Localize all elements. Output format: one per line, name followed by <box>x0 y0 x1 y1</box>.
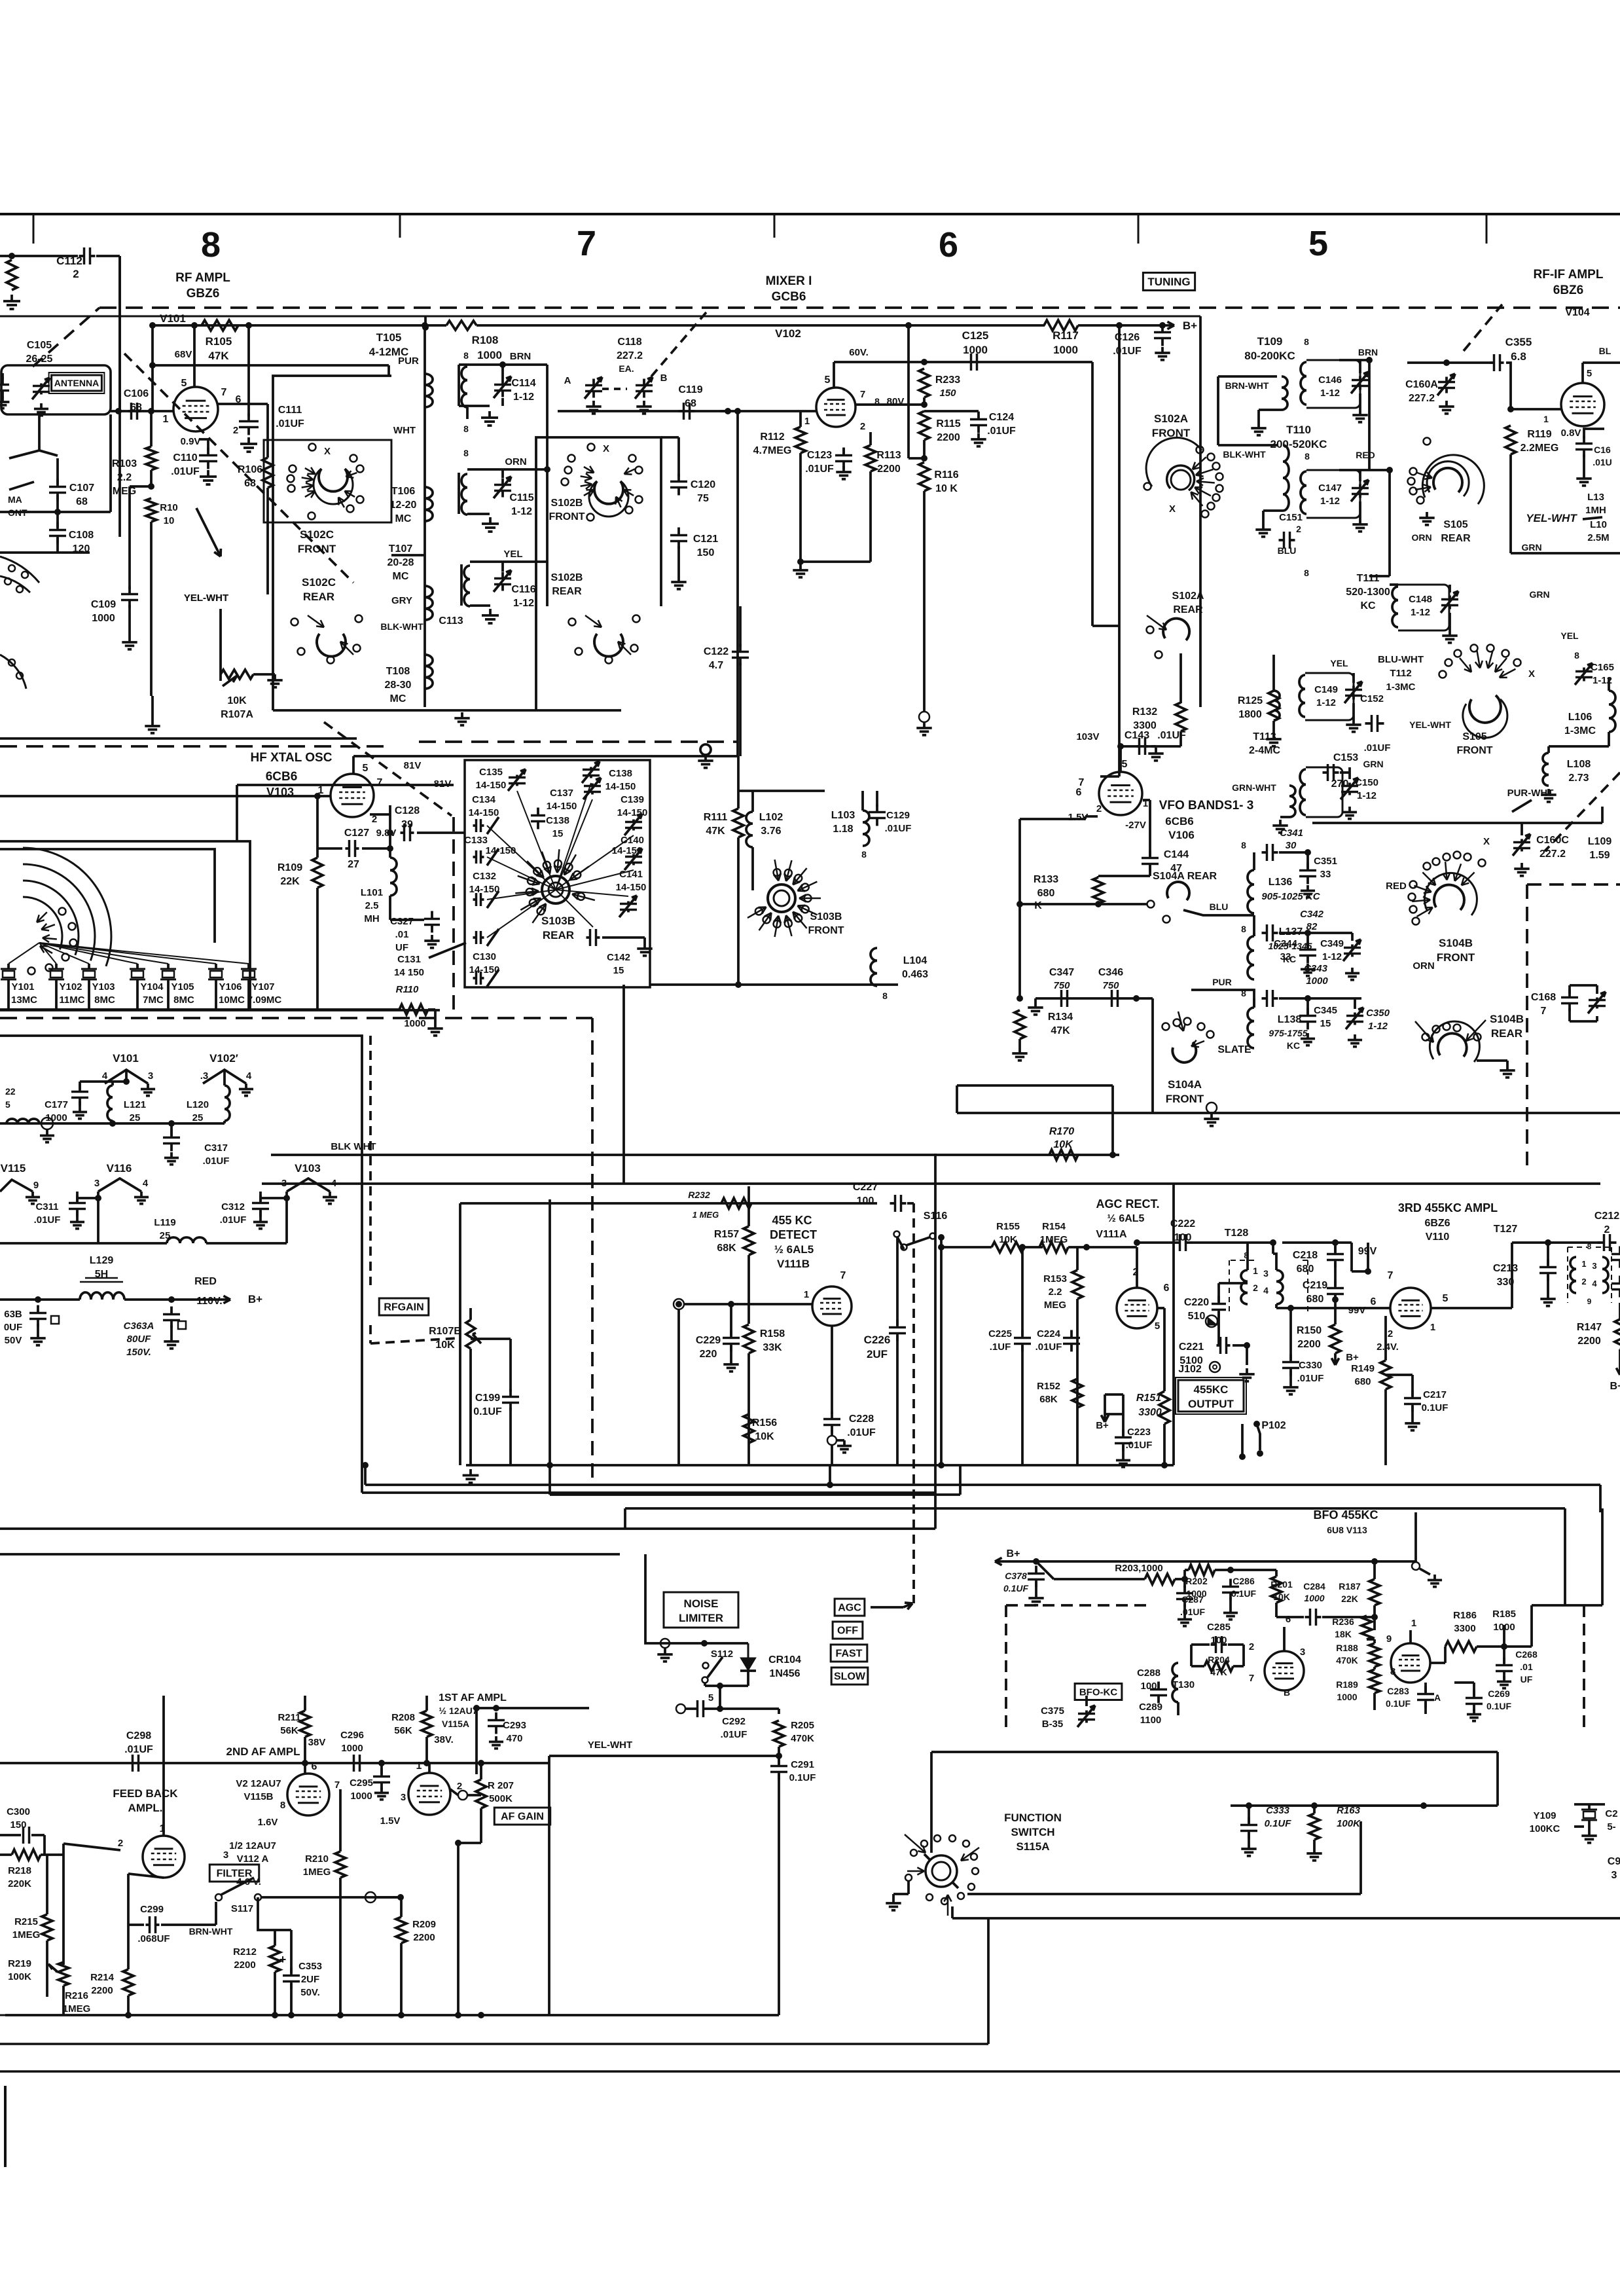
svg-text:R116: R116 <box>934 469 958 481</box>
svg-text:10K: 10K <box>755 1431 774 1442</box>
svg-text:60V.: 60V. <box>849 347 868 358</box>
diode <box>1206 1315 1217 1327</box>
bus line 2 <box>550 1493 960 1496</box>
svg-text:2200: 2200 <box>877 464 901 475</box>
arrow AGC <box>871 1606 903 1609</box>
svg-text:R185: R185 <box>1492 1609 1516 1620</box>
svg-text:FRONT: FRONT <box>1456 745 1492 756</box>
svg-text:A: A <box>1434 1692 1441 1703</box>
svg-text:1000: 1000 <box>963 344 988 356</box>
svg-text:EA.: EA. <box>619 363 634 374</box>
svg-text:C221: C221 <box>1179 1341 1204 1353</box>
heater box <box>0 1036 362 1370</box>
svg-text:8MC: 8MC <box>94 994 115 1006</box>
svg-text:L108: L108 <box>1567 759 1591 770</box>
svg-text:750: 750 <box>1102 980 1119 991</box>
svg-text:5: 5 <box>1308 224 1328 263</box>
svg-text:ORN: ORN <box>505 456 526 467</box>
svg-text:A: A <box>564 375 571 386</box>
dashed boundary xtal <box>0 745 393 748</box>
svg-text:C110: C110 <box>173 452 197 464</box>
svg-text:2: 2 <box>1253 1283 1258 1293</box>
svg-text:C177: C177 <box>45 1099 68 1110</box>
svg-text:2.2MEG: 2.2MEG <box>1521 443 1559 454</box>
svg-text:1MEG: 1MEG <box>303 1867 331 1878</box>
svg-text:.01UF: .01UF <box>1126 1440 1153 1451</box>
svg-text:V106: V106 <box>1168 829 1195 841</box>
svg-text:C138: C138 <box>609 768 632 779</box>
svg-text:C375: C375 <box>1041 1705 1064 1717</box>
svg-text:7: 7 <box>860 389 865 400</box>
wire NL vertical <box>645 1554 748 1643</box>
svg-text:8: 8 <box>280 1800 285 1811</box>
svg-text:6: 6 <box>939 225 958 264</box>
svg-text:L121: L121 <box>124 1099 146 1110</box>
svg-text:V101: V101 <box>160 312 186 325</box>
tube V115B <box>287 1774 329 1815</box>
svg-text:3: 3 <box>148 1070 153 1082</box>
wire plate pin5 <box>191 322 198 329</box>
svg-text:FRONT: FRONT <box>1437 951 1475 964</box>
svg-text:227.2: 227.2 <box>1409 393 1435 404</box>
svg-text:C151: C151 <box>1279 512 1303 523</box>
svg-text:.1UF: .1UF <box>990 1341 1011 1353</box>
svg-text:68: 68 <box>76 496 88 507</box>
svg-text:L103: L103 <box>831 810 855 821</box>
svg-text:SLOW: SLOW <box>834 1671 866 1683</box>
dashed bfo border <box>1005 1605 1007 1728</box>
svg-text:L102: L102 <box>759 812 783 823</box>
trimmer C-extra <box>473 977 477 979</box>
rotary switch S104A rear <box>1167 882 1189 900</box>
svg-text:PUR-WHT: PUR-WHT <box>1507 788 1554 799</box>
svg-text:YEL: YEL <box>1560 630 1579 641</box>
svg-text:6BZ6: 6BZ6 <box>1424 1218 1450 1229</box>
rotary switch S102B rear <box>594 634 623 657</box>
svg-text:UF: UF <box>1521 1674 1533 1685</box>
svg-text:C312: C312 <box>221 1201 245 1212</box>
resistor R150b <box>1330 1324 1341 1353</box>
svg-text:99V: 99V <box>1348 1305 1366 1316</box>
coil T112 <box>1274 691 1280 720</box>
tube V101 <box>173 387 218 431</box>
svg-text:520-1300: 520-1300 <box>1346 587 1390 598</box>
svg-text:.01UF: .01UF <box>1157 730 1186 741</box>
svg-text:B: B <box>1284 1687 1290 1698</box>
crystal Y104 <box>136 964 139 969</box>
svg-text:150: 150 <box>939 388 956 399</box>
svg-text:C228: C228 <box>849 1413 874 1425</box>
svg-text:R155: R155 <box>996 1221 1020 1232</box>
wire plate V111A <box>1157 1307 1164 1309</box>
svg-text:T108: T108 <box>386 666 410 677</box>
tube V113B <box>1391 1643 1430 1683</box>
svg-text:1.18: 1.18 <box>833 824 853 835</box>
svg-text:C342: C342 <box>1300 909 1324 920</box>
svg-text:FAST: FAST <box>836 1649 863 1660</box>
svg-text:6CB6: 6CB6 <box>266 770 298 784</box>
svg-text:C115: C115 <box>509 492 533 503</box>
svg-text:C330: C330 <box>1299 1360 1322 1371</box>
svg-text:5: 5 <box>1155 1321 1160 1332</box>
svg-text:0.9V: 0.9V <box>181 436 201 447</box>
svg-text:8: 8 <box>463 424 469 434</box>
svg-text:2UF: 2UF <box>301 1974 319 1985</box>
svg-text:C9: C9 <box>1608 1856 1620 1867</box>
rotary switch S103A <box>23 897 62 949</box>
svg-text:7: 7 <box>1388 1270 1394 1281</box>
svg-text:MC: MC <box>395 513 412 524</box>
svg-text:C355: C355 <box>1505 336 1532 348</box>
svg-text:18K: 18K <box>1335 1629 1352 1639</box>
svg-text:8: 8 <box>1304 337 1309 347</box>
wire af bottom bus <box>5 2014 779 2016</box>
circle gnd mixer <box>919 712 929 722</box>
svg-text:.01UF: .01UF <box>171 466 200 477</box>
svg-text:2.5M: 2.5M <box>1587 532 1609 543</box>
wire box edge <box>109 414 112 512</box>
wire plate V115A <box>477 1707 589 1709</box>
svg-text:1-12: 1-12 <box>1411 607 1430 618</box>
svg-text:T112: T112 <box>1390 668 1411 679</box>
svg-text:C122: C122 <box>704 646 729 657</box>
svg-text:R188: R188 <box>1336 1643 1358 1653</box>
svg-text:1/2 12AU7: 1/2 12AU7 <box>229 1840 276 1851</box>
bus line xtal top <box>0 737 357 740</box>
svg-text:L120: L120 <box>187 1099 209 1110</box>
svg-text:38V: 38V <box>308 1737 326 1748</box>
wire BLK WHT <box>271 1154 1119 1156</box>
ground <box>1477 1059 1507 1062</box>
svg-text:1: 1 <box>1253 1266 1258 1276</box>
svg-text:R216: R216 <box>65 1990 88 2001</box>
svg-text:MC: MC <box>390 693 406 704</box>
svg-text:C218: C218 <box>1293 1250 1318 1261</box>
svg-text:RF-IF AMPL: RF-IF AMPL <box>1534 268 1604 282</box>
heater V116 <box>98 1178 141 1192</box>
svg-text:3: 3 <box>94 1178 99 1189</box>
svg-text:RED: RED <box>1386 881 1407 892</box>
svg-text:22: 22 <box>5 1086 16 1097</box>
svg-text:4: 4 <box>246 1070 252 1082</box>
svg-text:T113: T113 <box>1253 731 1276 742</box>
tube V106 <box>1099 772 1142 815</box>
wire <box>391 554 425 556</box>
svg-text:3: 3 <box>1592 1261 1596 1271</box>
svg-text:200-520KC: 200-520KC <box>1270 438 1327 450</box>
wire <box>1339 359 1369 361</box>
svg-text:C2: C2 <box>1605 1808 1617 1819</box>
svg-text:T111: T111 <box>1357 573 1380 584</box>
svg-text:R233: R233 <box>935 374 960 386</box>
left edge tick <box>4 2086 7 2167</box>
svg-text:R219: R219 <box>8 1958 31 1969</box>
svg-text:BRN: BRN <box>510 351 531 362</box>
svg-text:3: 3 <box>1611 1870 1617 1881</box>
rotary switch S115A <box>926 1855 957 1887</box>
svg-text:V2 12AU7: V2 12AU7 <box>236 1778 281 1789</box>
dashed diagonal B <box>324 722 452 816</box>
svg-text:GRN: GRN <box>1521 542 1541 553</box>
svg-text:S103B: S103B <box>541 915 575 927</box>
svg-text:14 150: 14 150 <box>394 967 424 978</box>
svg-text:BRN: BRN <box>1358 347 1378 357</box>
svg-text:2: 2 <box>1096 803 1102 814</box>
svg-text:T127: T127 <box>1494 1224 1518 1235</box>
capacitor C152 <box>1365 722 1372 725</box>
svg-text:B-35: B-35 <box>1042 1719 1064 1730</box>
svg-text:8: 8 <box>1304 568 1309 578</box>
svg-text:C286: C286 <box>1233 1576 1255 1586</box>
boxed label AGC <box>835 1599 865 1616</box>
wire <box>471 1338 511 1340</box>
svg-text:6.8: 6.8 <box>1511 350 1526 363</box>
svg-text:2ND AF AMPL: 2ND AF AMPL <box>226 1745 300 1758</box>
svg-text:C142: C142 <box>607 952 630 963</box>
svg-text:8: 8 <box>1390 1666 1395 1677</box>
svg-text:68V: 68V <box>175 349 192 360</box>
resistor R115 <box>919 411 929 440</box>
coil T105b <box>458 365 460 406</box>
svg-text:8: 8 <box>861 849 867 860</box>
svg-text:PUR: PUR <box>1212 977 1232 987</box>
svg-text:8: 8 <box>1305 451 1310 462</box>
svg-text:1-12: 1-12 <box>1320 496 1340 507</box>
svg-text:1: 1 <box>804 1289 809 1300</box>
svg-text:L13: L13 <box>1587 492 1604 503</box>
svg-text:R105: R105 <box>206 335 232 348</box>
svg-text:C268: C268 <box>1515 1649 1538 1660</box>
svg-text:1-12: 1-12 <box>511 506 532 517</box>
tube V110 <box>1390 1288 1431 1328</box>
svg-text:227.2: 227.2 <box>1539 848 1566 860</box>
svg-text:11MC: 11MC <box>59 994 84 1006</box>
svg-text:68K: 68K <box>1039 1394 1058 1405</box>
transformer T109 <box>1218 375 1277 378</box>
trimmer C135v <box>516 775 518 778</box>
svg-text:C114: C114 <box>511 378 535 389</box>
svg-text:8: 8 <box>1587 1242 1592 1251</box>
wires to crystals <box>9 943 39 964</box>
coil T107b <box>460 564 463 606</box>
svg-text:P102: P102 <box>1261 1420 1286 1431</box>
wire <box>831 1445 833 1465</box>
svg-text:0.1UF: 0.1UF <box>1386 1698 1411 1709</box>
bus line 1 <box>365 1484 1600 1486</box>
svg-text:.01: .01 <box>1520 1662 1533 1672</box>
boxed label ANTENNA <box>52 375 102 391</box>
svg-text:MEG: MEG <box>1044 1300 1066 1311</box>
svg-text:X: X <box>1528 668 1535 680</box>
boxed label TUNING <box>1143 273 1195 291</box>
ground <box>1034 998 1037 1002</box>
wire <box>1431 1662 1445 1664</box>
svg-text:7: 7 <box>840 1270 846 1281</box>
svg-text:0.1UF: 0.1UF <box>1003 1583 1029 1594</box>
svg-text:½ 12AU7: ½ 12AU7 <box>439 1705 477 1716</box>
svg-text:R208: R208 <box>391 1712 415 1723</box>
resistor R233 <box>919 369 929 397</box>
wire <box>1111 1085 1114 1155</box>
svg-text:8: 8 <box>882 991 888 1001</box>
crystal Y103 <box>88 964 90 969</box>
svg-text:C130: C130 <box>473 951 496 962</box>
wire plate <box>1179 731 1182 746</box>
svg-text:C148: C148 <box>1409 594 1432 605</box>
svg-text:BLU: BLU <box>1210 902 1229 912</box>
wire <box>1340 771 1350 774</box>
svg-text:2200: 2200 <box>1577 1336 1601 1347</box>
svg-text:C300: C300 <box>7 1806 30 1817</box>
capacitor C125 symbol <box>970 361 973 363</box>
trimmer C141v <box>627 902 630 904</box>
tube V103 <box>331 774 374 817</box>
svg-text:1000: 1000 <box>1053 344 1078 356</box>
svg-text:7: 7 <box>377 777 383 788</box>
svg-text:20-28: 20-28 <box>387 557 414 568</box>
svg-text:R170: R170 <box>1049 1126 1074 1137</box>
dashed diagonal <box>1464 304 1502 351</box>
svg-text:C212: C212 <box>1594 1211 1619 1222</box>
wire plate <box>833 362 835 388</box>
svg-text:S104A REAR: S104A REAR <box>1153 871 1217 882</box>
svg-text:C350: C350 <box>1366 1008 1390 1019</box>
svg-text:BLU-WHT: BLU-WHT <box>1378 654 1424 665</box>
svg-text:C137: C137 <box>550 788 573 799</box>
svg-text:AF GAIN: AF GAIN <box>501 1812 544 1823</box>
resistor R105 on bus <box>202 320 238 331</box>
svg-text:S104B: S104B <box>1490 1013 1524 1025</box>
svg-text:6: 6 <box>1164 1283 1170 1294</box>
vertical x840 <box>549 1199 551 1465</box>
svg-text:Y104: Y104 <box>140 981 164 993</box>
svg-text:T128: T128 <box>1225 1228 1249 1239</box>
svg-text:L10: L10 <box>1590 519 1607 530</box>
svg-text:.3: .3 <box>200 1070 209 1082</box>
svg-text:B+: B+ <box>1346 1352 1359 1363</box>
wire fsw mid <box>967 1893 1361 1895</box>
coil T106b <box>458 473 460 514</box>
svg-text:BRN-WHT: BRN-WHT <box>1225 380 1269 391</box>
variable capacitor C118-B <box>643 379 645 386</box>
svg-text:AMPL.: AMPL. <box>128 1802 163 1814</box>
svg-text:9: 9 <box>1587 1297 1592 1306</box>
wire fsw join <box>1342 1804 1424 1807</box>
svg-text:80UF: 80UF <box>127 1334 152 1345</box>
boxed label OFF <box>833 1622 863 1639</box>
svg-text:C296: C296 <box>340 1730 364 1741</box>
svg-text:50V.: 50V. <box>300 1987 319 1998</box>
wire from B+ bus <box>1116 322 1123 329</box>
rotary switch S105 rear <box>1433 468 1462 492</box>
svg-text:S104B: S104B <box>1439 937 1473 949</box>
svg-text:MH: MH <box>364 913 379 924</box>
svg-text:1-12: 1-12 <box>1316 697 1336 708</box>
svg-text:.01UF: .01UF <box>1035 1341 1062 1353</box>
svg-text:1MEG: 1MEG <box>1040 1234 1068 1245</box>
dashed AGC line <box>912 1203 915 1601</box>
svg-text:V101: V101 <box>113 1052 139 1065</box>
svg-text:0.463: 0.463 <box>902 969 928 980</box>
wire cathode <box>370 813 390 816</box>
svg-text:C144: C144 <box>1164 849 1189 860</box>
boxed label RFGAIN <box>379 1298 429 1315</box>
svg-text:C229: C229 <box>696 1335 721 1346</box>
svg-text:1: 1 <box>1430 1322 1435 1333</box>
svg-text:680: 680 <box>1354 1376 1371 1387</box>
svg-text:GRY: GRY <box>391 595 412 606</box>
svg-text:5: 5 <box>5 1099 10 1110</box>
wire <box>1335 1616 1375 1618</box>
svg-text:T110: T110 <box>1286 424 1311 436</box>
svg-text:S102C: S102C <box>302 576 336 589</box>
svg-text:C149: C149 <box>1314 684 1338 695</box>
tube V115A <box>408 1773 450 1815</box>
svg-text:68K: 68K <box>717 1243 736 1254</box>
svg-text:680: 680 <box>1306 1294 1324 1305</box>
svg-text:L119: L119 <box>154 1217 175 1228</box>
svg-text:2.2: 2.2 <box>117 472 132 483</box>
svg-text:4: 4 <box>143 1178 149 1189</box>
rotary switch S104B rear <box>1438 1033 1467 1057</box>
capacitor C112 <box>0 255 78 257</box>
svg-text:22K: 22K <box>1341 1594 1358 1604</box>
svg-text:2200: 2200 <box>234 1959 255 1971</box>
variable capacitor C149 <box>1352 686 1355 690</box>
svg-text:B+: B+ <box>1007 1548 1020 1559</box>
svg-text:YEL: YEL <box>503 549 522 560</box>
svg-text:R107A: R107A <box>221 709 253 720</box>
wire plate to tube <box>1275 1304 1278 1308</box>
svg-text:C363A: C363A <box>124 1321 154 1332</box>
svg-text:R115: R115 <box>936 418 960 429</box>
svg-text:Y103: Y103 <box>92 981 115 993</box>
svg-text:4.7MEG: 4.7MEG <box>753 445 792 456</box>
detector box <box>361 1370 363 1493</box>
svg-text:KC: KC <box>1360 600 1376 611</box>
svg-text:R210: R210 <box>305 1853 329 1865</box>
svg-text:R109: R109 <box>278 862 302 873</box>
svg-text:V111A: V111A <box>1096 1229 1127 1240</box>
wire 1.5V node <box>1085 815 1098 818</box>
antenna input box <box>1 365 111 414</box>
svg-text:6: 6 <box>1076 787 1082 798</box>
variable capacitor C146 <box>1359 376 1361 380</box>
svg-text:100K: 100K <box>1337 1818 1361 1829</box>
svg-text:1-12: 1-12 <box>1593 675 1612 686</box>
svg-text:R212: R212 <box>233 1946 257 1958</box>
svg-text:2-4MC: 2-4MC <box>1249 745 1280 756</box>
capacitor C151 <box>1279 539 1284 541</box>
svg-text:L101: L101 <box>361 887 383 898</box>
svg-text:C317: C317 <box>204 1142 228 1154</box>
svg-text:0.1UF: 0.1UF <box>789 1772 816 1783</box>
wire antenna line <box>111 410 173 412</box>
svg-text:FEED BACK: FEED BACK <box>113 1787 178 1800</box>
wire fsw left <box>987 1918 990 2044</box>
heater V102 <box>203 1070 246 1084</box>
IF can C147 <box>1306 470 1360 518</box>
svg-text:33: 33 <box>1280 951 1291 962</box>
svg-text:T106: T106 <box>391 486 416 497</box>
wire cathode V112A <box>128 1874 164 1878</box>
svg-text:L129: L129 <box>90 1255 114 1266</box>
svg-text:PUR: PUR <box>398 355 419 367</box>
grid tick 1 <box>33 214 35 244</box>
svg-text:C289: C289 <box>1139 1702 1162 1713</box>
svg-text:R154: R154 <box>1042 1221 1066 1232</box>
resistor R101 <box>9 253 15 259</box>
